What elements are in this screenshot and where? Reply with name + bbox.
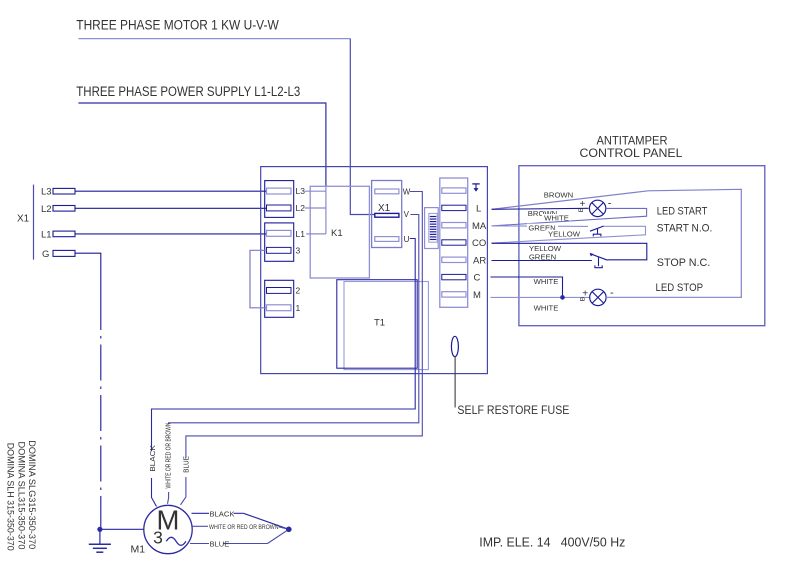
- svg-text:WHITE OR RED OR BROWN: WHITE OR RED OR BROWN: [165, 423, 172, 489]
- svg-text:CO: CO: [472, 238, 486, 249]
- wire motor-label leader vertical to V row: [350, 39, 375, 215]
- label BROWN second: [527, 209, 559, 218]
- svg-text:M1: M1: [131, 544, 146, 556]
- svg-text:DOMINA SLG315-350-370: DOMINA SLG315-350-370: [27, 440, 37, 549]
- terminal block X1 bracket: [17, 185, 34, 260]
- strip slot L: [442, 205, 466, 210]
- ground earth symbol: [89, 529, 111, 552]
- junction node earth: [97, 527, 102, 532]
- antitamper control panel box: [519, 166, 765, 326]
- label BROWN top: [543, 189, 575, 200]
- terminal slot L1: [267, 230, 292, 236]
- svg-text:X1: X1: [17, 214, 30, 225]
- svg-text:2: 2: [296, 286, 301, 296]
- junction node C/M: [560, 295, 565, 300]
- svg-text:START N.O.: START N.O.: [657, 223, 713, 235]
- svg-text:GREEN: GREEN: [529, 252, 556, 261]
- control board PCB outline: [261, 167, 488, 374]
- wire L2 supply: [75, 207, 267, 209]
- svg-text:LED STOP: LED STOP: [656, 282, 704, 294]
- svg-text:L1: L1: [296, 229, 306, 239]
- svg-text:BLACK: BLACK: [210, 509, 235, 518]
- terminal slot 1: [267, 305, 292, 311]
- terminal slot 3: [267, 247, 292, 253]
- connector slot V: [375, 213, 399, 217]
- strip slot MA: [442, 223, 466, 228]
- strip slot C: [442, 274, 466, 279]
- lamp LED START: [578, 197, 612, 216]
- wire motor black lead: [192, 509, 289, 529]
- wire supply-label leader: [78, 103, 326, 187]
- label WHITE start: [542, 213, 571, 222]
- svg-text:3: 3: [153, 528, 163, 548]
- svg-text:BLUE: BLUE: [181, 456, 190, 473]
- svg-text:3: 3: [296, 246, 301, 256]
- connector slot W: [375, 189, 399, 194]
- lamp LED STOP: [580, 287, 614, 306]
- switch START N.O.: [590, 226, 604, 236]
- wire motor-label leader horizontal: [78, 38, 350, 40]
- svg-text:B: B: [580, 296, 587, 301]
- label WHITE m: [531, 303, 561, 313]
- terminal slot 2: [267, 288, 292, 294]
- svg-text:MA: MA: [472, 221, 487, 232]
- connector X1 board: [372, 181, 402, 248]
- svg-text:G: G: [42, 249, 49, 260]
- wire C branch: [491, 277, 563, 297]
- junction node motor leads: [286, 527, 292, 533]
- wire V phase white run: [168, 215, 419, 504]
- wire L to LED START plus: [492, 208, 589, 209]
- wire L3 trace to supply node: [305, 190, 326, 192]
- terminal block L3/L2: [265, 181, 294, 218]
- wire CO stop loop: [492, 243, 647, 259]
- label BLUE vertical: [181, 456, 191, 477]
- terminal slot L2: [267, 205, 292, 211]
- svg-text:BLACK: BLACK: [148, 445, 157, 472]
- svg-text:WHITE OR RED OR BROWN: WHITE OR RED OR BROWN: [209, 524, 279, 531]
- svg-text:U: U: [404, 235, 410, 244]
- wire L1 supply: [75, 233, 267, 235]
- strip slot CO: [442, 240, 466, 245]
- svg-text:W: W: [403, 188, 411, 197]
- svg-text:WHITE: WHITE: [544, 213, 569, 222]
- label GREEN stop: [527, 252, 559, 261]
- svg-text:AR: AR: [473, 256, 486, 267]
- wire slot3 to slot1 loop: [250, 250, 267, 307]
- svg-text:L2: L2: [296, 203, 306, 213]
- connector slot U: [375, 237, 399, 242]
- relay K1: [310, 186, 369, 278]
- wire AR to stop switch: [492, 260, 592, 262]
- wire motor to earth node: [100, 528, 144, 530]
- svg-text:L: L: [476, 203, 481, 214]
- label BLACK vertical: [148, 445, 158, 478]
- wire G earth dash-dot: [75, 253, 101, 529]
- svg-text:L3: L3: [296, 186, 306, 196]
- wire U phase black run: [152, 239, 416, 507]
- svg-text:BROWN: BROWN: [544, 190, 573, 199]
- wire M row: [491, 296, 590, 298]
- label WHITE OR RED OR BROWN vertical: [163, 423, 173, 493]
- wire LED START minus return: [492, 208, 647, 226]
- wire BROWN rail L to LED STOP minus: [492, 189, 742, 297]
- svg-text:T1: T1: [374, 318, 385, 329]
- svg-text:THREE PHASE POWER SUPPLY L1-L2: THREE PHASE POWER SUPPLY L1-L2-L3: [76, 84, 300, 100]
- svg-text:DOMINA SLL315-350-370: DOMINA SLL315-350-370: [16, 442, 26, 550]
- output terminal strip: [440, 178, 468, 307]
- svg-text:-: -: [608, 197, 612, 209]
- terminal block L1/3: [265, 223, 294, 261]
- wire motor white lead: [192, 524, 289, 531]
- wire motor blue lead: [190, 529, 289, 548]
- svg-text:L2: L2: [41, 204, 52, 215]
- wire L2 trace to supply node: [305, 207, 326, 209]
- svg-text:YELLOW: YELLOW: [548, 229, 581, 238]
- strip slot earth: [442, 188, 466, 193]
- svg-text:L1: L1: [41, 229, 52, 240]
- wire L1 trace to supply node: [306, 233, 326, 235]
- terminal block 2/1: [265, 280, 294, 317]
- leader line fuse: [454, 357, 456, 408]
- svg-text:THREE PHASE MOTOR 1 KW U-V-W: THREE PHASE MOTOR 1 KW U-V-W: [76, 18, 279, 34]
- svg-text:WHITE: WHITE: [534, 304, 559, 313]
- transformer T1: [337, 280, 417, 369]
- strip slot M: [442, 292, 466, 297]
- earth arrow symbol: [472, 184, 479, 192]
- svg-text:K1: K1: [331, 228, 343, 239]
- svg-text:X1: X1: [378, 203, 391, 214]
- terminal X1-L2: [41, 204, 75, 215]
- svg-text:SELF RESTORE FUSE: SELF RESTORE FUSE: [457, 403, 569, 417]
- svg-text:M: M: [473, 290, 481, 301]
- svg-text:BLUE: BLUE: [210, 540, 230, 549]
- terminal X1-L1: [41, 229, 75, 240]
- svg-text:STOP N.C.: STOP N.C.: [657, 257, 711, 269]
- svg-text:LED START: LED START: [657, 205, 708, 217]
- strip slot AR: [442, 257, 466, 262]
- svg-text:C: C: [474, 272, 481, 283]
- fuse F1 self restore: [451, 336, 458, 356]
- label YELLOW stop: [527, 244, 564, 253]
- svg-text:DOMINA SLH 315-350-370: DOMINA SLH 315-350-370: [5, 443, 15, 551]
- label YELLOW start: [546, 229, 582, 238]
- svg-text:IMP. ELE. 14 400V/50 Hz: IMP. ELE. 14 400V/50 Hz: [479, 535, 625, 550]
- terminal slot L3: [267, 188, 292, 194]
- wire L3 supply: [75, 190, 267, 192]
- svg-text:V: V: [404, 210, 410, 219]
- svg-text:B: B: [578, 207, 585, 212]
- ribbon connector comb: [425, 208, 439, 249]
- wire LED STOP minus to rail: [606, 296, 741, 298]
- label WHITE c: [531, 277, 561, 286]
- switch STOP N.C.: [590, 253, 608, 268]
- svg-text:1: 1: [296, 303, 301, 313]
- wire start switch to corner: [492, 226, 646, 243]
- svg-text:CONTROL PANEL: CONTROL PANEL: [580, 146, 683, 160]
- wire W phase blue run: [181, 192, 423, 505]
- wire GREEN MA to start switch: [492, 225, 589, 228]
- svg-text:L3: L3: [41, 187, 52, 198]
- terminal X1-L3: [41, 187, 75, 198]
- label GREEN start: [527, 224, 558, 233]
- svg-text:WHITE: WHITE: [534, 277, 559, 286]
- terminal X1-G: [42, 249, 75, 260]
- transformer T1 shadow outline: [344, 282, 428, 370]
- motor M1: [144, 505, 192, 554]
